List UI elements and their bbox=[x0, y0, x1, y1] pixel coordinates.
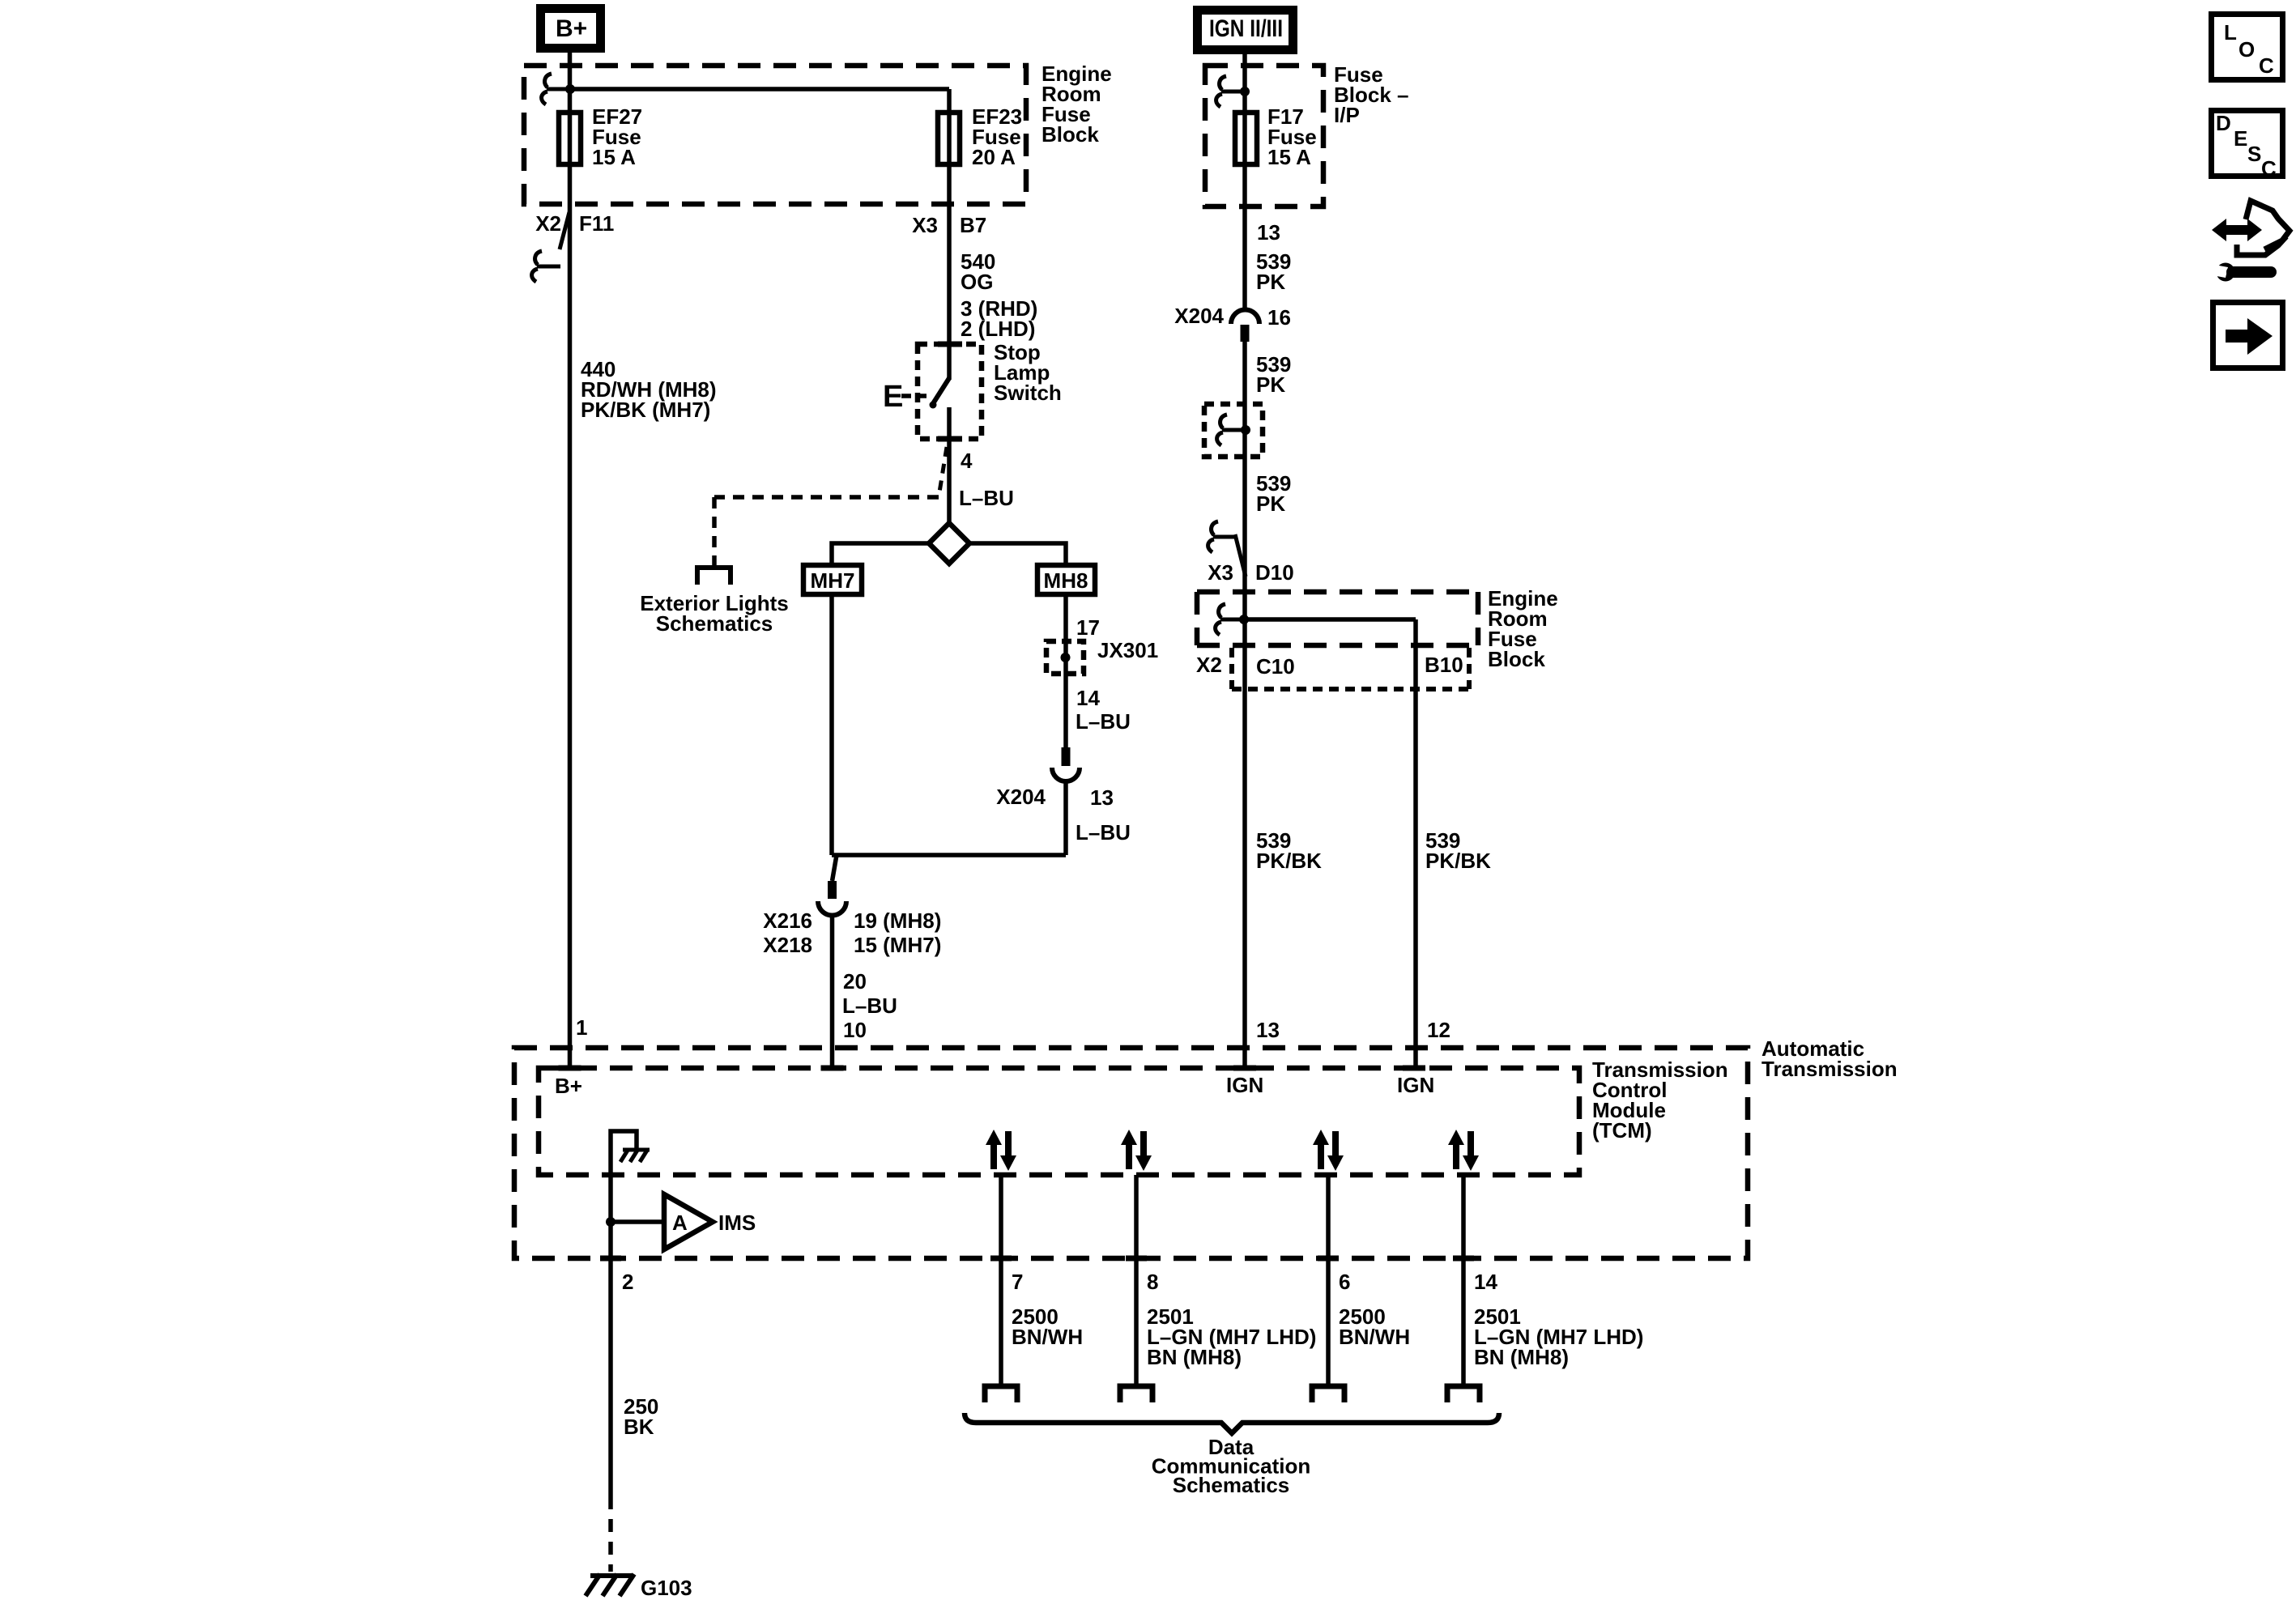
svg-text:S: S bbox=[2247, 142, 2261, 166]
svg-text:L–BU: L–BU bbox=[1076, 820, 1131, 845]
Engine Room Fuse Block dashed outline (left) bbox=[524, 66, 1026, 204]
node: IGN rail junction bbox=[1240, 87, 1250, 96]
option box MH7 bbox=[803, 565, 862, 594]
svg-text:7: 7 bbox=[1012, 1270, 1023, 1294]
svg-text:6: 6 bbox=[1339, 1270, 1350, 1294]
svg-text:G103: G103 bbox=[641, 1576, 692, 1600]
dashed wire to Exterior Lights Schematics bbox=[714, 495, 939, 500]
svg-text:X3: X3 bbox=[1208, 560, 1233, 585]
svg-text:B10: B10 bbox=[1425, 653, 1463, 677]
svg-text:10: 10 bbox=[843, 1018, 867, 1042]
option box MH8 bbox=[1037, 565, 1095, 594]
node: JX301 splice bbox=[1061, 653, 1071, 662]
connector hook X3 (engine room) bbox=[1208, 521, 1237, 552]
tick: TCM pin 10 entry bbox=[821, 1066, 844, 1071]
svg-text:IMS: IMS bbox=[718, 1211, 756, 1235]
svg-text:B7: B7 bbox=[960, 213, 986, 237]
tick: TCM pin 12 entry bbox=[1403, 1066, 1425, 1071]
connector hook at IGN rail bbox=[1216, 76, 1245, 107]
wire: B+ feed down to TCM pin 1 (circuit 440) bbox=[568, 53, 573, 1066]
tick: TCM pin 1 entry bbox=[559, 1066, 581, 1071]
svg-text:MH7: MH7 bbox=[811, 568, 855, 593]
node: inline connector junction bbox=[1241, 425, 1250, 435]
tick: TCM pin 2 exit bbox=[600, 1256, 621, 1262]
fuse EF27 15A bbox=[559, 113, 581, 164]
svg-text:1: 1 bbox=[576, 1015, 587, 1040]
svg-text:E: E bbox=[883, 380, 903, 414]
power symbol B+ (battery feed box) bbox=[541, 9, 601, 49]
node: fuse block branch junction bbox=[1239, 615, 1249, 624]
icon: DESC box bbox=[2212, 111, 2283, 181]
dashed alternate-pin slant at pin 4 bbox=[939, 447, 947, 497]
node: IMS branch junction bbox=[606, 1217, 616, 1227]
svg-text:13: 13 bbox=[1257, 220, 1280, 245]
off-page terminal at pin 6 bbox=[1312, 1386, 1344, 1402]
svg-text:B+: B+ bbox=[556, 15, 587, 42]
wire: TCM pin 6 data line (circuit 2500) bbox=[1326, 1175, 1331, 1386]
svg-text:13: 13 bbox=[1256, 1018, 1280, 1042]
svg-text:13: 13 bbox=[1090, 785, 1114, 810]
splice diamond (stop lamp feed splice) bbox=[929, 523, 969, 564]
stop lamp switch dashed box bbox=[918, 344, 982, 439]
svg-text:3 (RHD)2 (LHD): 3 (RHD)2 (LHD) bbox=[961, 296, 1037, 341]
svg-text:X204: X204 bbox=[1174, 304, 1224, 328]
svg-text:250BK: 250BK bbox=[624, 1394, 658, 1439]
svg-text:2: 2 bbox=[622, 1270, 633, 1294]
icon: LOC box bbox=[2212, 15, 2283, 80]
buffer/amplifier A (IMS) bbox=[664, 1194, 713, 1249]
wire: MH8 branch down through JX301 bbox=[1063, 597, 1068, 747]
TCM serial data arrows at pin 8 (bidirectional data arrows) bbox=[1121, 1130, 1152, 1171]
wire: splice to MH7 bbox=[832, 543, 929, 563]
svg-text:8: 8 bbox=[1147, 1270, 1158, 1294]
wire: TCM pin 2 ground (circuit 250 BK) bbox=[608, 1222, 613, 1496]
wire: TCM pin 14 data line (circuit 2501) bbox=[1461, 1175, 1466, 1386]
junction box JX301 dashed bbox=[1046, 641, 1084, 674]
wire: EF23 fuse to stop lamp switch (circuit 540 OG) bbox=[947, 89, 952, 380]
off-page terminal at pin 7 bbox=[985, 1386, 1017, 1402]
svg-text:IGN: IGN bbox=[1226, 1073, 1263, 1097]
in-line connector X204 pin 13 (male/female) bbox=[1062, 747, 1071, 766]
node: B+ rail junction bbox=[565, 84, 575, 94]
wire: branch to B10 bbox=[1244, 617, 1416, 622]
TCM serial data arrows at pin 7 (bidirectional data arrows) bbox=[986, 1130, 1016, 1171]
svg-text:14: 14 bbox=[1076, 686, 1100, 710]
brace grouping data lines bbox=[965, 1413, 1499, 1433]
Engine Room Fuse Block (right) dashed outline bbox=[1197, 592, 1478, 645]
svg-text:X216: X216 bbox=[763, 908, 812, 933]
tick: pin 7 exit bbox=[990, 1256, 1012, 1262]
svg-text:O: O bbox=[2238, 37, 2255, 62]
svg-text:X204: X204 bbox=[996, 785, 1046, 809]
connector X3 pin D10 crossing slant bbox=[1235, 534, 1246, 577]
fuse F17 15A bbox=[1235, 113, 1257, 164]
connector hook inside fuse block bbox=[1216, 604, 1244, 635]
tick: pin 6 exit bbox=[1318, 1256, 1339, 1262]
wire: stop lamp switch output to splice diamond (circuit L-BU) bbox=[947, 407, 952, 523]
switch blade (stop lamp switch contact) bbox=[932, 378, 949, 405]
wire: junction to IMS buffer bbox=[611, 1219, 664, 1224]
svg-text:X2: X2 bbox=[535, 211, 561, 236]
svg-text:EF27Fuse15 A: EF27Fuse15 A bbox=[592, 104, 642, 169]
TCM serial data arrows at pin 6 (bidirectional data arrows) bbox=[1313, 1130, 1344, 1171]
tick: pin 14 exit bbox=[1453, 1256, 1474, 1262]
svg-text:X218: X218 bbox=[763, 933, 812, 957]
Fuse Block - I/P dashed outline bbox=[1205, 66, 1323, 206]
dashed wire to ground G103 bbox=[608, 1496, 613, 1572]
TCM serial data arrows at pin 14 (bidirectional data arrows) bbox=[1448, 1130, 1479, 1171]
svg-text:B+: B+ bbox=[555, 1074, 582, 1098]
TCM internal ground loop bbox=[611, 1131, 637, 1222]
wire: TCM pin 7 data line (circuit 2500) bbox=[999, 1175, 1003, 1386]
chassis ground symbol (internal) bbox=[620, 1149, 650, 1162]
svg-text:EF23Fuse20 A: EF23Fuse20 A bbox=[972, 104, 1022, 169]
in-line connector X204 pin 16 (female/male) bbox=[1231, 310, 1259, 325]
fuse EF23 20A bbox=[938, 113, 960, 164]
wire: MH7 branch down bbox=[829, 597, 834, 855]
off-page terminal at pin 8 bbox=[1120, 1386, 1152, 1402]
fuse block lower terminal row dotted box bbox=[1232, 648, 1469, 689]
wire: X204 to fuse block (539 PK) bbox=[1242, 342, 1247, 1066]
wire: B10 down to TCM pin 12 (539 PK/BK) bbox=[1413, 619, 1418, 1066]
svg-text:IGN: IGN bbox=[1397, 1073, 1434, 1097]
svg-text:540OG: 540OG bbox=[961, 249, 995, 294]
svg-text:IGN II/III: IGN II/III bbox=[1209, 15, 1283, 42]
tick: wire leaving switch box bbox=[938, 436, 962, 442]
svg-text:L–BU: L–BU bbox=[842, 994, 897, 1018]
wire: TCM pin 8 data line (circuit 2501) bbox=[1134, 1175, 1139, 1386]
svg-text:X2: X2 bbox=[1196, 653, 1222, 677]
svg-text:JX301: JX301 bbox=[1097, 638, 1158, 662]
svg-text:Exterior LightsSchematics: Exterior LightsSchematics bbox=[640, 591, 788, 636]
svg-text:F11: F11 bbox=[579, 211, 614, 236]
svg-text:16: 16 bbox=[1267, 305, 1291, 330]
svg-text:D10: D10 bbox=[1255, 560, 1294, 585]
svg-text:D: D bbox=[2216, 111, 2231, 135]
svg-text:L–BU: L–BU bbox=[959, 486, 1014, 510]
connector hook X2 bbox=[532, 251, 560, 282]
wire: IGN feed down (circuit 539 PK) bbox=[1242, 54, 1247, 309]
Transmission Control Module (TCM) dashed outline bbox=[539, 1068, 1579, 1175]
svg-text:15 (MH7): 15 (MH7) bbox=[854, 933, 941, 957]
small in-line connector dashed box bbox=[1204, 404, 1263, 457]
svg-text:L: L bbox=[2224, 20, 2237, 45]
svg-text:12: 12 bbox=[1427, 1018, 1450, 1042]
connector hook at B+ rail bbox=[542, 74, 570, 104]
connector hook (inline) bbox=[1217, 415, 1246, 445]
wire: splice to MH8 bbox=[969, 543, 1066, 563]
tick: wire entering switch box bbox=[938, 342, 962, 347]
svg-text:C: C bbox=[2259, 53, 2274, 78]
svg-text:A: A bbox=[672, 1211, 688, 1235]
connector X2 pin F11 crossing slant bbox=[560, 212, 569, 249]
svg-text:E: E bbox=[2234, 126, 2247, 151]
svg-text:17: 17 bbox=[1076, 615, 1100, 640]
svg-text:X3: X3 bbox=[912, 213, 938, 237]
off-page terminal at pin 14 bbox=[1447, 1386, 1480, 1402]
ground G103 chassis symbol bbox=[586, 1574, 634, 1596]
wire: connector to TCM pin 10 (circuit 20 L-BU) bbox=[830, 914, 835, 1066]
icon: harness routing (double arrow, outline, wrench) bbox=[2208, 201, 2290, 282]
Automatic Transmission dashed outline bbox=[514, 1048, 1748, 1258]
svg-text:20: 20 bbox=[843, 969, 867, 994]
svg-text:14: 14 bbox=[1474, 1270, 1497, 1294]
wire: B+ rail to EF23 fuse bbox=[570, 87, 949, 91]
tick: TCM pin 13 entry bbox=[1233, 1066, 1256, 1071]
icon: forward arrow box bbox=[2213, 303, 2283, 368]
svg-text:C: C bbox=[2261, 156, 2277, 181]
in-line connector X216/X218 (male/female) bbox=[833, 855, 837, 881]
off-page terminal (Exterior Lights) bbox=[697, 568, 731, 585]
svg-text:19 (MH8): 19 (MH8) bbox=[854, 908, 941, 933]
wire: X204 down and across to MH7 wire bbox=[1063, 780, 1068, 855]
power symbol IGN II/III box bbox=[1198, 11, 1293, 50]
svg-text:L–BU: L–BU bbox=[1076, 709, 1131, 734]
svg-text:MH8: MH8 bbox=[1044, 568, 1088, 593]
svg-text:C10: C10 bbox=[1256, 654, 1295, 679]
svg-text:4: 4 bbox=[961, 449, 973, 473]
tick: pin 8 exit bbox=[1126, 1256, 1147, 1262]
